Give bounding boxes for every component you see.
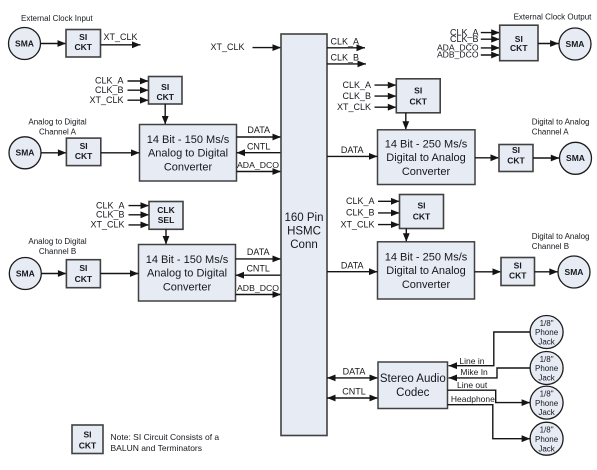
node XT_CLK input to SI CKT U11 xyxy=(340,219,399,229)
node XT_CLK input to SI CKT U8 xyxy=(337,102,396,112)
wire SMA to SI CKT U4 xyxy=(41,149,66,156)
svg-text:SI: SI xyxy=(417,201,425,211)
svg-text:SEL: SEL xyxy=(158,215,175,225)
svg-text:Mike In: Mike In xyxy=(460,367,488,377)
SMA connector external clock input xyxy=(9,28,41,60)
svg-text:CKT: CKT xyxy=(507,155,525,165)
svg-text:CLK_A: CLK_A xyxy=(95,76,124,86)
svg-text:Jack: Jack xyxy=(538,444,555,453)
node CLK_A input to SI CKT U14 xyxy=(450,27,500,37)
phone jack J5 1/8 inch xyxy=(530,422,563,455)
svg-text:CKT: CKT xyxy=(413,212,431,222)
node CLK_B input to SI CKT U14 xyxy=(450,34,500,44)
svg-text:CKT: CKT xyxy=(509,271,527,281)
svg-text:CLK_A: CLK_A xyxy=(331,36,360,46)
node CLK_A input to SI CKT U8 xyxy=(342,80,396,90)
wire SI CKT U2 clock to ADC A xyxy=(162,104,169,125)
svg-text:SI: SI xyxy=(79,32,87,42)
wire DATA from ADC B to HSMC xyxy=(236,247,282,262)
svg-text:CKT: CKT xyxy=(75,151,93,161)
svg-text:CLK_A: CLK_A xyxy=(342,80,371,90)
svg-text:XT_CLK: XT_CLK xyxy=(340,219,374,229)
svg-text:XT_CLK: XT_CLK xyxy=(90,220,124,230)
adc U6 14 Bit - 150 Ms/s Analog to Digital Converter B xyxy=(139,245,236,302)
svg-text:Digital to Analog: Digital to Analog xyxy=(532,232,590,241)
wire Headphone from codec to phone jack J5 xyxy=(448,394,531,442)
node CLK_B input to SI CKT U11 xyxy=(346,208,400,218)
svg-text:CLK_B: CLK_B xyxy=(95,85,124,95)
si-circuit U7 SI CKT channel B input xyxy=(66,260,100,288)
svg-text:1/8": 1/8" xyxy=(540,319,554,328)
svg-text:Jack: Jack xyxy=(538,374,555,383)
si-circuit U10 SI CKT DAC A output xyxy=(499,145,533,172)
svg-text:CKT: CKT xyxy=(75,274,93,284)
wire DAC B to SI CKT U13 xyxy=(475,268,502,275)
svg-text:SI: SI xyxy=(414,86,422,96)
svg-text:CNTL: CNTL xyxy=(342,387,366,397)
wire DAC A to SI CKT U10 xyxy=(475,154,499,161)
svg-text:CLK_B: CLK_B xyxy=(331,52,360,62)
svg-text:Channel A: Channel A xyxy=(532,128,570,137)
adc U3 14 Bit - 150 Ms/s Analog to Digital Converter A xyxy=(140,125,237,182)
svg-text:SI: SI xyxy=(80,141,88,151)
si-circuit U2 SI CKT ADC A clock xyxy=(149,77,183,105)
node XT_CLK into HSMC connector xyxy=(210,42,281,52)
wire CLK_B from HSMC xyxy=(327,52,366,67)
svg-text:Converter: Converter xyxy=(164,161,213,173)
wire CNTL from HSMC to ADC B xyxy=(236,264,282,279)
wire ADB_DCO from ADC B to HSMC xyxy=(236,283,282,298)
wire CLK_A from HSMC xyxy=(327,36,365,51)
svg-text:SI: SI xyxy=(83,430,91,440)
node CLK_B input to CLK SEL xyxy=(96,210,149,220)
wire CLK SEL clock to ADC B xyxy=(163,229,170,244)
wire SMA to SI CKT input xyxy=(41,40,67,47)
svg-text:14 Bit - 150 Ms/s: 14 Bit - 150 Ms/s xyxy=(146,254,229,266)
svg-text:Converter: Converter xyxy=(402,279,451,291)
svg-text:XT_CLK: XT_CLK xyxy=(210,42,244,52)
svg-text:Line out: Line out xyxy=(457,380,488,390)
svg-text:14 Bit - 250 Ms/s: 14 Bit - 250 Ms/s xyxy=(385,139,468,151)
wire Line out from codec to phone jack J4 xyxy=(448,380,531,406)
svg-text:Phone: Phone xyxy=(535,399,559,408)
wire DATA from HSMC to DAC A xyxy=(327,145,378,160)
wire SI CKT U4 to ADC A xyxy=(101,149,140,156)
clock-select U5 CLK SEL xyxy=(149,202,183,230)
svg-text:Channel A: Channel A xyxy=(39,128,77,137)
dac U12 14 Bit - 250 Ms/s Digital to Analog Converter B xyxy=(378,242,475,299)
node CLK_B input to SI CKT U2 xyxy=(95,85,149,95)
connector J1 160 Pin HSMC Conn xyxy=(281,34,327,436)
svg-text:Analog to Digital: Analog to Digital xyxy=(148,148,228,160)
label Digital to Analog Channel A xyxy=(532,117,590,136)
svg-text:CLK: CLK xyxy=(157,205,175,215)
svg-text:Analog to Digital: Analog to Digital xyxy=(147,268,227,280)
si-circuit U4 SI CKT channel A input xyxy=(66,138,100,166)
node ADB_DCO input to SI CKT U14 xyxy=(437,50,500,60)
svg-text:14 Bit - 250 Ms/s: 14 Bit - 250 Ms/s xyxy=(385,252,468,264)
svg-text:CKT: CKT xyxy=(79,440,97,450)
svg-text:Channel B: Channel B xyxy=(39,247,76,256)
wire SI CKT U11 clock to DAC B xyxy=(403,229,410,242)
svg-text:SI: SI xyxy=(514,260,522,270)
svg-text:Note: SI Circuit Consists of a: Note: SI Circuit Consists of a xyxy=(111,432,220,442)
wire SI CKT U8 clock to DAC A xyxy=(402,113,409,130)
codec U15 Stereo Audio Codec xyxy=(378,362,448,409)
label Analog to Digital Channel B xyxy=(28,237,86,256)
svg-text:DATA: DATA xyxy=(341,145,364,155)
svg-text:CLK_A: CLK_A xyxy=(346,196,375,206)
svg-text:Digital to Analog: Digital to Analog xyxy=(386,152,466,164)
wire SI CKT U14 to SMA clock output xyxy=(538,40,559,47)
node ADA_DCO input to SI CKT U14 xyxy=(437,43,500,53)
node XT_CLK input to CLK SEL xyxy=(90,220,149,230)
svg-text:Line in: Line in xyxy=(459,356,484,366)
node CLK_A input to CLK SEL xyxy=(96,200,149,210)
label External Clock Output xyxy=(514,13,593,22)
si-circuit U14 SI CKT external clock output xyxy=(500,25,538,61)
svg-text:160 Pin: 160 Pin xyxy=(284,212,323,224)
wire CNTL from HSMC to ADC A xyxy=(237,141,282,156)
label Digital to Analog Channel B xyxy=(532,232,590,251)
svg-text:SI: SI xyxy=(79,263,87,273)
wire SI CKT U13 to SMA output B xyxy=(535,268,558,275)
svg-text:SI: SI xyxy=(512,145,520,155)
wire XT_CLK output of SI CKT xyxy=(101,32,141,48)
svg-text:Analog to Digital: Analog to Digital xyxy=(28,117,86,126)
svg-text:DATA: DATA xyxy=(247,247,270,257)
svg-text:CNTL: CNTL xyxy=(247,141,271,151)
svg-text:SMA: SMA xyxy=(16,268,35,278)
svg-text:Headphone: Headphone xyxy=(451,394,495,404)
si-circuit legend SI CKT xyxy=(72,425,103,454)
svg-text:Stereo Audio: Stereo Audio xyxy=(380,373,446,385)
wire Mike In from phone jack J3 to codec xyxy=(449,367,531,382)
svg-text:XT_CLK: XT_CLK xyxy=(89,95,123,105)
si-circuit U13 SI CKT DAC B output xyxy=(501,258,535,286)
svg-text:CLK_B: CLK_B xyxy=(346,208,375,218)
node CLK_B input to SI CKT U8 xyxy=(342,91,396,101)
svg-text:Phone: Phone xyxy=(535,435,559,444)
SMA connector analog input channel A xyxy=(9,137,41,169)
svg-text:CKT: CKT xyxy=(156,92,174,102)
node CLK_A input to SI CKT U11 xyxy=(346,196,400,206)
svg-text:CNTL: CNTL xyxy=(246,264,270,274)
wire SMA to SI CKT U7 xyxy=(41,270,66,277)
svg-text:Converter: Converter xyxy=(163,281,212,293)
label note SI circuit description xyxy=(111,432,220,453)
svg-text:External Clock Input: External Clock Input xyxy=(21,14,93,23)
svg-text:CLK_B: CLK_B xyxy=(342,91,371,101)
label External Clock Input xyxy=(21,14,93,23)
svg-text:DATA: DATA xyxy=(341,260,364,270)
svg-text:Conn: Conn xyxy=(290,239,318,251)
wire CNTL between HSMC and codec xyxy=(327,387,378,402)
SMA connector analog output channel B xyxy=(558,256,590,288)
phone jack J4 1/8 inch xyxy=(530,386,563,419)
svg-text:CKT: CKT xyxy=(510,43,528,53)
wire SI CKT U7 to ADC B xyxy=(100,270,138,277)
si-circuit U8 SI CKT DAC A clock xyxy=(396,79,440,113)
svg-text:Digital to Analog: Digital to Analog xyxy=(386,265,466,277)
svg-text:SI: SI xyxy=(161,82,169,92)
svg-text:CKT: CKT xyxy=(409,97,427,107)
wire DATA between HSMC and codec xyxy=(327,367,378,382)
svg-text:14 Bit - 150 Ms/s: 14 Bit - 150 Ms/s xyxy=(147,134,230,146)
svg-text:1/8": 1/8" xyxy=(540,426,554,435)
phone jack J2 1/8 inch xyxy=(530,316,563,349)
dac U9 14 Bit - 250 Ms/s Digital to Analog Converter A xyxy=(378,130,476,185)
SMA connector analog input channel B xyxy=(9,258,41,290)
label Analog to Digital Channel A xyxy=(28,117,86,136)
svg-text:Jack: Jack xyxy=(538,338,555,347)
SMA connector analog output channel A xyxy=(560,142,592,174)
svg-text:Digital to Analog: Digital to Analog xyxy=(532,117,590,126)
svg-text:XT_CLK: XT_CLK xyxy=(104,32,138,42)
svg-text:Analog to Digital: Analog to Digital xyxy=(28,237,86,246)
svg-text:1/8": 1/8" xyxy=(540,389,554,398)
svg-text:SMA: SMA xyxy=(16,148,35,158)
svg-text:SMA: SMA xyxy=(566,39,585,49)
svg-text:SMA: SMA xyxy=(566,153,585,163)
svg-text:Channel B: Channel B xyxy=(532,242,569,251)
svg-text:Codec: Codec xyxy=(396,387,429,399)
svg-text:XT_CLK: XT_CLK xyxy=(337,102,371,112)
svg-text:ADB_DCO: ADB_DCO xyxy=(437,50,479,60)
svg-text:Converter: Converter xyxy=(402,166,451,178)
wire ADA_DCO from ADC A to HSMC xyxy=(237,160,282,175)
svg-text:HSMC: HSMC xyxy=(287,226,321,238)
svg-text:1/8": 1/8" xyxy=(540,355,554,364)
wire Line in from phone jack J2 to codec xyxy=(449,332,531,369)
svg-text:Phone: Phone xyxy=(535,328,559,337)
node XT_CLK input to SI CKT U2 xyxy=(89,95,148,105)
svg-text:Phone: Phone xyxy=(535,364,559,373)
svg-text:Jack: Jack xyxy=(538,408,555,417)
svg-text:SMA: SMA xyxy=(15,38,34,48)
si-circuit U1 SI CKT external clock input xyxy=(66,30,101,58)
svg-text:BALUN and Terminators: BALUN and Terminators xyxy=(111,443,203,453)
wire SI CKT U10 to SMA output A xyxy=(533,155,559,162)
svg-text:DATA: DATA xyxy=(247,125,270,135)
node CLK_A input to SI CKT U2 xyxy=(95,76,149,86)
si-circuit U11 SI CKT DAC B clock xyxy=(400,195,444,229)
wire DATA from HSMC to DAC B xyxy=(327,260,378,275)
wire DATA from ADC A to HSMC xyxy=(237,125,282,140)
SMA connector external clock output xyxy=(559,28,591,60)
svg-text:SMA: SMA xyxy=(565,267,584,277)
svg-text:CLK_B: CLK_B xyxy=(96,210,125,220)
svg-text:CKT: CKT xyxy=(74,42,92,52)
svg-text:External Clock Output: External Clock Output xyxy=(514,13,593,22)
svg-text:DATA: DATA xyxy=(343,367,366,377)
phone jack J3 1/8 inch xyxy=(530,352,563,385)
